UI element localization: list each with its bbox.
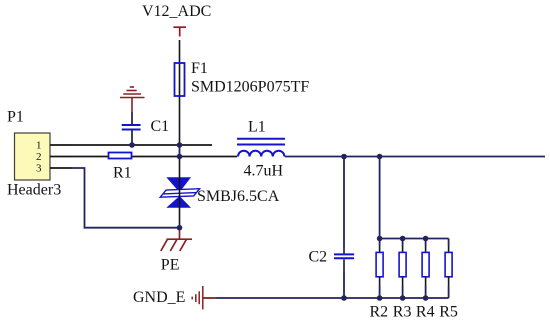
junction node C2 bottom (341, 295, 347, 301)
power port V12_ADC label (142, 3, 211, 20)
label PE (161, 257, 180, 274)
connector P1 body (15, 133, 51, 180)
pin number 2 (36, 151, 42, 163)
svg-text:2: 2 (36, 151, 42, 163)
svg-text:R3: R3 (393, 304, 412, 321)
TVS diode SMBJ6.5CA middle band (160, 189, 199, 198)
label 4.7uH (244, 163, 284, 180)
svg-text:R4: R4 (416, 304, 435, 321)
svg-text:P1: P1 (7, 109, 24, 126)
wire R5 bottom stub (448, 277, 450, 286)
svg-text:R5: R5 (439, 304, 458, 321)
wire R4 bottom stub (425, 277, 427, 286)
svg-text:R2: R2 (370, 304, 389, 321)
svg-text:C1: C1 (151, 118, 170, 135)
svg-text:F1: F1 (191, 60, 208, 77)
wire R5 top stub (448, 239, 450, 247)
svg-text:PE: PE (161, 257, 180, 274)
pin number 3 (36, 163, 42, 175)
wire C2 vertical bottom (343, 259, 345, 272)
label C2 (309, 248, 328, 265)
wire V12 to fuse and through to node (179, 40, 181, 145)
wire R3 top stub (402, 239, 404, 247)
svg-text:4.7uH: 4.7uH (244, 163, 284, 180)
inductor L1 core bars (237, 139, 285, 145)
wire resistor bank feed vertical (379, 157, 381, 239)
label SMBJ6.5CA (197, 188, 280, 205)
wire R4 top stub (425, 239, 427, 247)
capacitor C2 (334, 254, 354, 258)
junction node diode-PE (177, 225, 183, 231)
wire diode vertical (179, 157, 181, 228)
svg-text:C2: C2 (309, 248, 328, 265)
junction node rail R2 (377, 295, 383, 301)
svg-text:SMD1206P075TF: SMD1206P075TF (191, 79, 309, 96)
label P1 (7, 109, 24, 126)
label R1 (113, 165, 132, 182)
TVS diode SMBJ6.5CA bottom triangle (166, 196, 191, 208)
resistor R5 (445, 252, 452, 276)
junction node rail R4 (423, 295, 429, 301)
resistor R1 (109, 153, 132, 159)
svg-text:SMBJ6.5CA: SMBJ6.5CA (197, 188, 280, 205)
label C1 (151, 118, 170, 135)
svg-text:GND_E: GND_E (133, 289, 185, 306)
power port V12_ADC bar (173, 27, 186, 36)
label SMD1206P075TF (191, 79, 309, 96)
wire pin1 row (72, 144, 212, 146)
fuse F1 (175, 63, 185, 96)
junction node rail R3 (400, 295, 406, 301)
svg-text:R1: R1 (113, 165, 132, 182)
wire C1 to node (131, 131, 133, 146)
wire node F1 to pin2 row (179, 145, 181, 157)
TVS diode SMBJ6.5CA top triangle (166, 177, 191, 192)
svg-text:3: 3 (36, 163, 42, 175)
label R3 (393, 304, 412, 321)
wire main right rail (285, 156, 545, 158)
TVS diode SMBJ6.5CA band middle line (163, 193, 197, 194)
svg-text:1: 1 (36, 140, 42, 152)
earth ground (top left) (120, 87, 145, 112)
wire earth to C1 (131, 112, 133, 124)
junction node F1-pin1 (177, 142, 183, 148)
wire pin2 row to inductor (72, 156, 237, 158)
wire R2 top stub (379, 239, 381, 247)
junction node bar R4 (423, 236, 429, 242)
svg-text:L1: L1 (248, 119, 266, 136)
PE ground symbol (161, 228, 192, 251)
GND_E ground symbol (192, 286, 216, 309)
inductor L1 coil (238, 151, 284, 157)
wire bottom rail (216, 297, 449, 299)
wire resistor bank top bar (380, 238, 449, 240)
pin stub 3 (50, 167, 72, 169)
wire R2 bottom stub (379, 277, 381, 286)
wire pin3 route (72, 168, 180, 228)
svg-text:Header3: Header3 (7, 182, 61, 199)
pin number 1 (36, 140, 42, 152)
junction node C2 top (341, 154, 347, 160)
resistor R2 (376, 252, 383, 276)
junction node Rbank top (377, 154, 383, 160)
label L1 (248, 119, 266, 136)
pin stub 1 (50, 144, 72, 146)
wire R3 bottom stub (402, 277, 404, 286)
label R5 (439, 304, 458, 321)
junction node bar R3 (400, 236, 406, 242)
capacitor C1 (122, 125, 141, 130)
label R2 (370, 304, 389, 321)
svg-text:V12_ADC: V12_ADC (142, 3, 211, 20)
label GND_E (133, 289, 185, 306)
label R4 (416, 304, 435, 321)
pin stub 2 (50, 156, 72, 158)
label F1 (191, 60, 208, 77)
junction node diode-pin2 (177, 154, 183, 160)
label Header3 (7, 182, 61, 199)
wire C2 vertical top (343, 157, 345, 248)
junction node bar R2 (377, 236, 383, 242)
junction node C1-pin1 (129, 142, 135, 148)
resistor R4 (422, 252, 429, 276)
resistor R3 (399, 252, 406, 276)
